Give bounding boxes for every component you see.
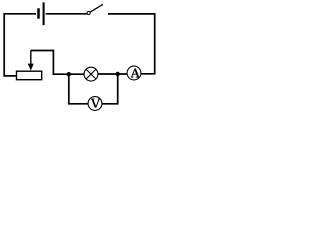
voltmeter V1: [88, 97, 102, 111]
lamp L1: [84, 67, 98, 81]
wire battery to switch: [46, 13, 87, 15]
node junction dot right (voltmeter tap): [116, 72, 120, 76]
rheostat slider arrow: [28, 51, 34, 71]
ammeter A1: [127, 66, 141, 80]
wire right voltmeter branch: [102, 74, 117, 104]
node junction dot left (lamp/voltmeter tap): [67, 72, 71, 76]
wire top-left loop: rheostat left terminal up to battery: [4, 14, 36, 76]
wire lamp to ammeter: [98, 73, 127, 75]
wire switch to right side down to ammeter: [108, 14, 155, 74]
resistor R1 (rheostat body): [17, 71, 42, 80]
wire left voltmeter branch: [69, 74, 88, 104]
switch S1 lever (open): [90, 4, 103, 12]
switch S1 pivot: [87, 11, 90, 14]
battery B1 negative plate (short thick): [37, 8, 40, 18]
battery B1 positive plate (long thin): [43, 2, 45, 25]
wire slider to middle line: [31, 51, 84, 75]
